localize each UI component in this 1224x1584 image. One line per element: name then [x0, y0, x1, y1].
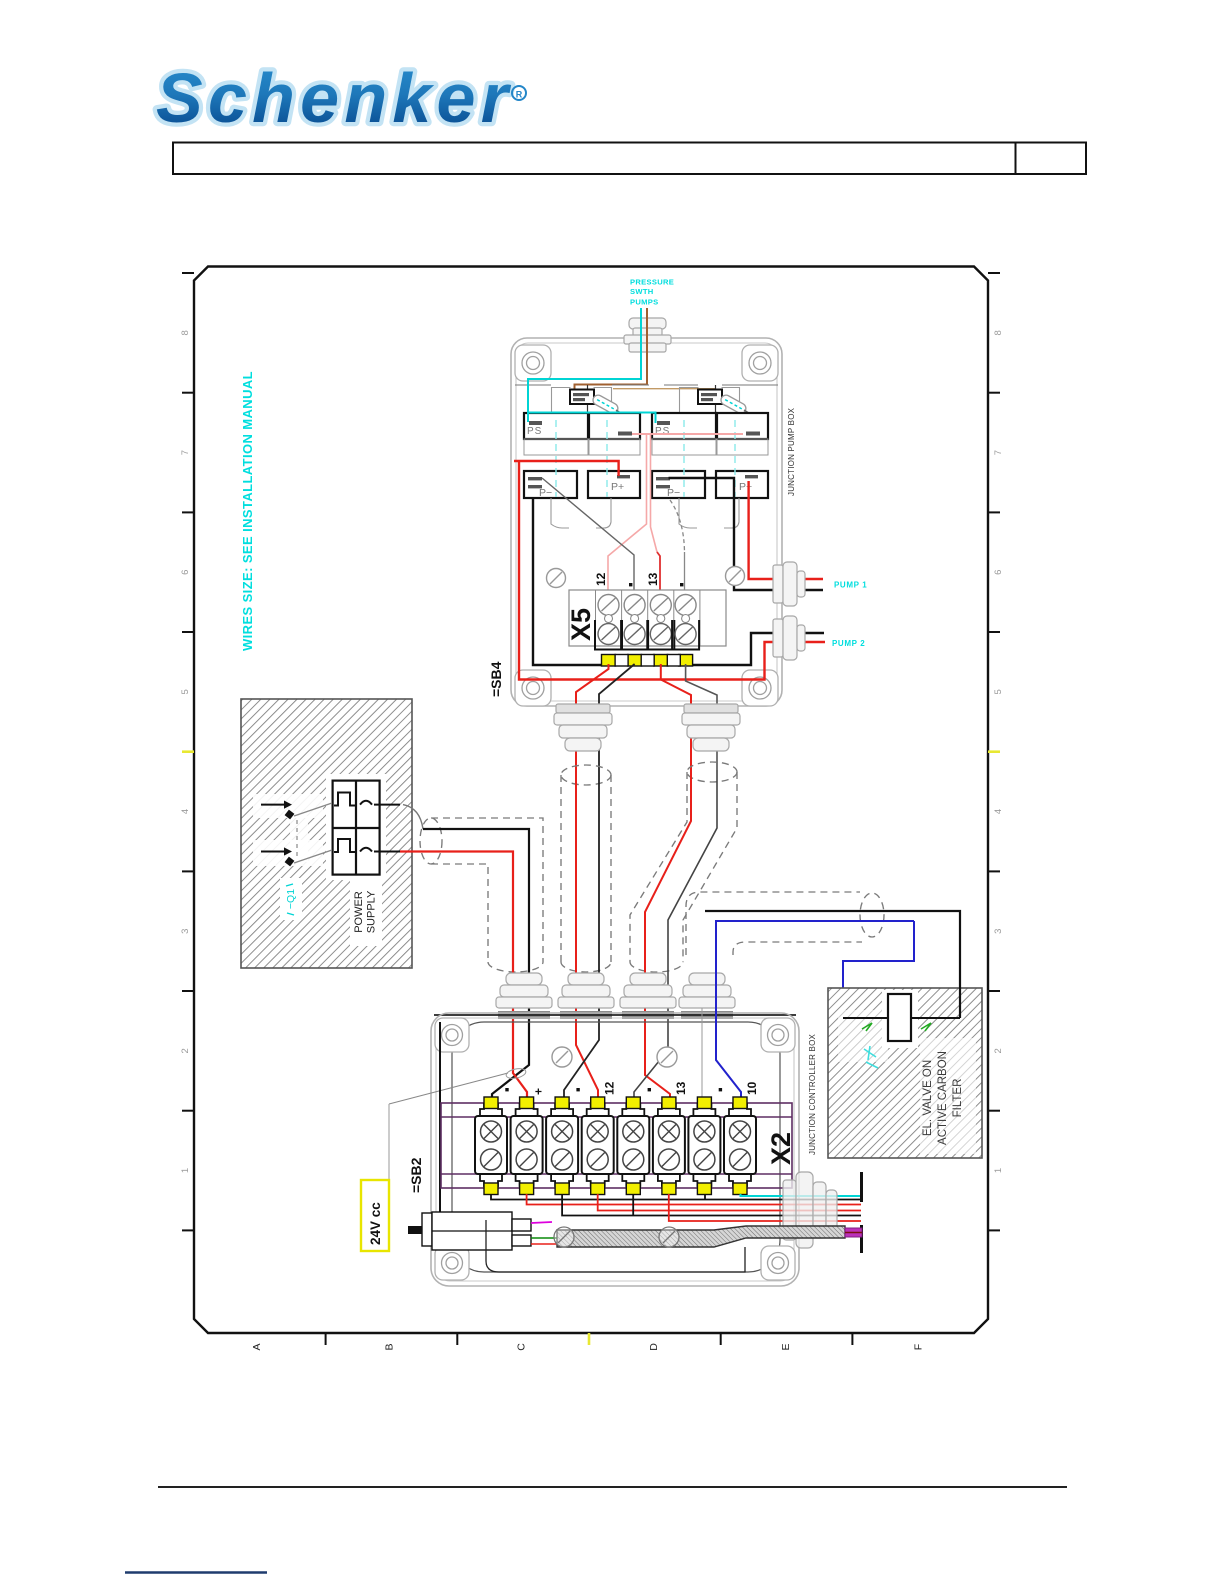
controller box right cable gland [783, 1172, 837, 1248]
wires below X2 to right exit [491, 1194, 861, 1221]
footer rule [158, 1486, 1067, 1488]
pressure switch group 1: P- contact block [524, 471, 577, 498]
cable clamps [554, 1227, 679, 1247]
wire: gray P- g1 to X5 t2 [542, 478, 634, 592]
svg-text:FILTER: FILTER [952, 1079, 964, 1118]
svg-text:24V cc: 24V cc [368, 1202, 383, 1245]
pump box corner screws [515, 345, 778, 706]
controller box corner screws [435, 1018, 795, 1280]
X2 terminal 3 [546, 1097, 578, 1195]
footer link bar [125, 1571, 267, 1573]
svg-text:12: 12 [594, 572, 608, 586]
pressure switch group 1: lever [591, 393, 619, 415]
cable sheath pump box to controller (left, straight) [561, 765, 611, 962]
green flow marks [862, 1023, 931, 1031]
wire: red supply into P+ group1 [514, 461, 619, 476]
label POWER SUPPLY [353, 890, 378, 933]
X5 terminal 3 [650, 595, 671, 623]
svg-text:3: 3 [180, 929, 191, 934]
svg-text:X5: X5 [566, 608, 596, 641]
X5 wire tabs [602, 655, 616, 667]
cyan wire overlay on PS boxes [527, 379, 529, 422]
frame row numbers [180, 330, 1004, 1173]
svg-text:F: F [913, 1344, 925, 1350]
pump box lid screws [547, 567, 745, 588]
wire: blue valve control [716, 921, 914, 1100]
svg-text:B: B [383, 1343, 395, 1350]
frame center ticks left/right (yellow) [182, 750, 194, 753]
X2 terminal 6 [653, 1097, 685, 1195]
wire: black valve return [705, 911, 960, 1018]
svg-text:10: 10 [745, 1081, 759, 1095]
svg-text:6: 6 [993, 570, 1004, 575]
svg-text:PUMPS: PUMPS [630, 298, 659, 307]
svg-text:R: R [516, 90, 523, 100]
wire end bars [860, 1172, 863, 1202]
svg-text:1: 1 [993, 1168, 1004, 1173]
terminal block X5 [569, 590, 726, 646]
controller lid screws [552, 1047, 677, 1067]
svg-text:EL. VALVE ON: EL. VALVE ON [922, 1060, 934, 1136]
cable sheath power supply to controller [420, 818, 543, 962]
svg-text:JUNCTION CONTROLLER BOX: JUNCTION CONTROLLER BOX [808, 1033, 817, 1155]
pressure switch group 1: PS contact block [524, 413, 588, 439]
pump box lid top edge segments [515, 384, 778, 386]
svg-text:P+: P+ [611, 481, 624, 493]
X5 terminal 2 [624, 595, 645, 623]
svg-text:C: C [516, 1343, 528, 1351]
label 24V cc (yellow box) [361, 1180, 389, 1251]
svg-text:JUNCTION PUMP BOX: JUNCTION PUMP BOX [787, 407, 796, 496]
svg-text:A: A [251, 1343, 263, 1350]
svg-text:X2: X2 [766, 1132, 796, 1165]
X2 terminal 8 [724, 1097, 756, 1195]
wires X5 to cables [576, 664, 609, 770]
svg-text:8: 8 [180, 330, 191, 335]
svg-text:P+: P+ [739, 481, 752, 493]
frame ruler ticks bottom [326, 1333, 853, 1345]
X5 terminal 4 [675, 595, 696, 623]
Schenker logo [156, 59, 526, 137]
cyan marks [864, 1046, 878, 1068]
wire: black power to controller [403, 805, 423, 829]
shielded cable (hatched) [557, 1226, 845, 1247]
svg-text:PRESSURE: PRESSURE [630, 278, 674, 287]
wire: red PUMP2 feed [519, 461, 825, 680]
wires inside cables [576, 770, 598, 1100]
svg-text:E: E [780, 1343, 792, 1350]
svg-text:2: 2 [993, 1048, 1004, 1053]
junction pump box outline [511, 338, 782, 706]
wire black vertical inside left [439, 1022, 441, 1213]
svg-text:7: 7 [180, 450, 191, 455]
X2 terminal 1 [475, 1097, 507, 1195]
cable sheath el.valve to controller [686, 892, 884, 955]
el.valve box (hatched) [828, 988, 982, 1158]
cable recess outline [486, 1220, 745, 1272]
svg-text:POWER: POWER [353, 891, 365, 933]
24V connector [422, 1212, 531, 1250]
X5 labels 12 / 13 [594, 572, 660, 586]
svg-text:+: + [532, 1088, 546, 1095]
svg-text:1: 1 [180, 1168, 191, 1173]
pressure switch group 2: lever [719, 393, 747, 415]
breaker pole 1 [261, 801, 400, 820]
pump box bottom cable glands [554, 704, 612, 751]
svg-text:12: 12 [603, 1081, 617, 1095]
cable sheath pump box to controller (right, S-curve) [630, 762, 737, 962]
controller box top cable glands [496, 973, 552, 1008]
circuit breaker Q1 [333, 781, 380, 875]
frame ruler ticks left/right [182, 273, 1000, 1230]
svg-text:2: 2 [180, 1048, 191, 1053]
label EL.VALVE ON ACTIVE CARBON FILTER [922, 1051, 964, 1145]
svg-text:4: 4 [180, 809, 191, 814]
svg-text:7: 7 [993, 450, 1004, 455]
svg-text:PUMP 2: PUMP 2 [832, 639, 865, 648]
pressure switch group 2: P- contact block [652, 471, 705, 498]
svg-text:8: 8 [993, 330, 1004, 335]
wire: red PUMP1 feed [749, 481, 823, 579]
pressure switch group 2: terminal box [652, 388, 768, 529]
cyan actuator dashed lines [556, 420, 735, 497]
thin verticals at switch feed [587, 385, 589, 413]
frame center tick bottom (yellow) [588, 1333, 591, 1345]
junction controller box outline [431, 1013, 799, 1286]
svg-text:4: 4 [993, 809, 1004, 814]
leader line with ellipse [389, 1073, 508, 1104]
wire: gray P- g2 to X5 t4 [670, 500, 685, 552]
svg-text:P−: P− [667, 487, 680, 499]
terminal strip X2 outline (purple) [441, 1103, 792, 1188]
header box [173, 143, 1086, 175]
pump box right cable glands [773, 562, 805, 606]
wire: thin gray screen [701, 1008, 703, 1100]
X2 terminal 7 [688, 1097, 720, 1195]
svg-text:13: 13 [674, 1081, 688, 1095]
drawing frame border [194, 267, 988, 1334]
X5 terminal 1 [598, 595, 619, 623]
svg-text:SWTH: SWTH [630, 287, 654, 296]
svg-text:SUPPLY: SUPPLY [366, 890, 378, 933]
svg-text:=SB2: =SB2 [408, 1157, 424, 1193]
breaker pole 2 [261, 847, 400, 866]
pump box top cable gland [624, 318, 671, 352]
pressure switch group 1: terminal box [524, 388, 640, 529]
controller box lid edge [434, 1014, 796, 1016]
frame column letters A-F [251, 1343, 925, 1351]
pressure switch group 1: P+ contact block [588, 471, 640, 498]
svg-text:PUMP 1: PUMP 1 [834, 581, 867, 590]
X2 terminal 2 [511, 1097, 543, 1195]
wire: black PUMP1 [669, 478, 824, 590]
wire: brown supply [575, 308, 648, 390]
wire: black PUMP2 [533, 499, 824, 666]
svg-text:PS: PS [527, 426, 542, 437]
svg-text:5: 5 [993, 689, 1004, 694]
solenoid valve Y1 [888, 994, 911, 1041]
label: PRESSURE SWTH PUMPS (cyan) [630, 278, 674, 307]
svg-text:ACTIVE CARBON: ACTIVE CARBON [937, 1051, 949, 1145]
pressure switch group 2: PS contact block [652, 413, 716, 439]
svg-text:P−: P− [539, 487, 552, 499]
X2 terminal 4 [582, 1097, 614, 1195]
svg-text:Schenker: Schenker [156, 59, 512, 137]
svg-text:6: 6 [180, 570, 191, 575]
svg-text:13: 13 [646, 572, 660, 586]
svg-text:5: 5 [180, 689, 191, 694]
X2 terminal labels [505, 1088, 508, 1091]
breaker mechanical link (dashed) [296, 820, 298, 858]
power supply box (hatched) [241, 699, 412, 968]
svg-text:3: 3 [993, 929, 1004, 934]
svg-text:−Q1: −Q1 [285, 889, 297, 909]
wire: cyan pressure switch line [528, 308, 641, 422]
pressure switch group 2: P+ contact block [716, 471, 768, 498]
wire: red power to controller [400, 852, 527, 1101]
svg-text:WIRES SIZE: SEE INSTALLATION M: WIRES SIZE: SEE INSTALLATION MANUAL [240, 371, 255, 651]
svg-text:PS: PS [655, 426, 670, 437]
X2 terminal 5 [617, 1097, 649, 1195]
svg-text:D: D [648, 1343, 660, 1351]
pink sense wire pair [632, 433, 743, 435]
svg-text:=SB4: =SB4 [488, 661, 504, 697]
connector wires [531, 1222, 552, 1223]
